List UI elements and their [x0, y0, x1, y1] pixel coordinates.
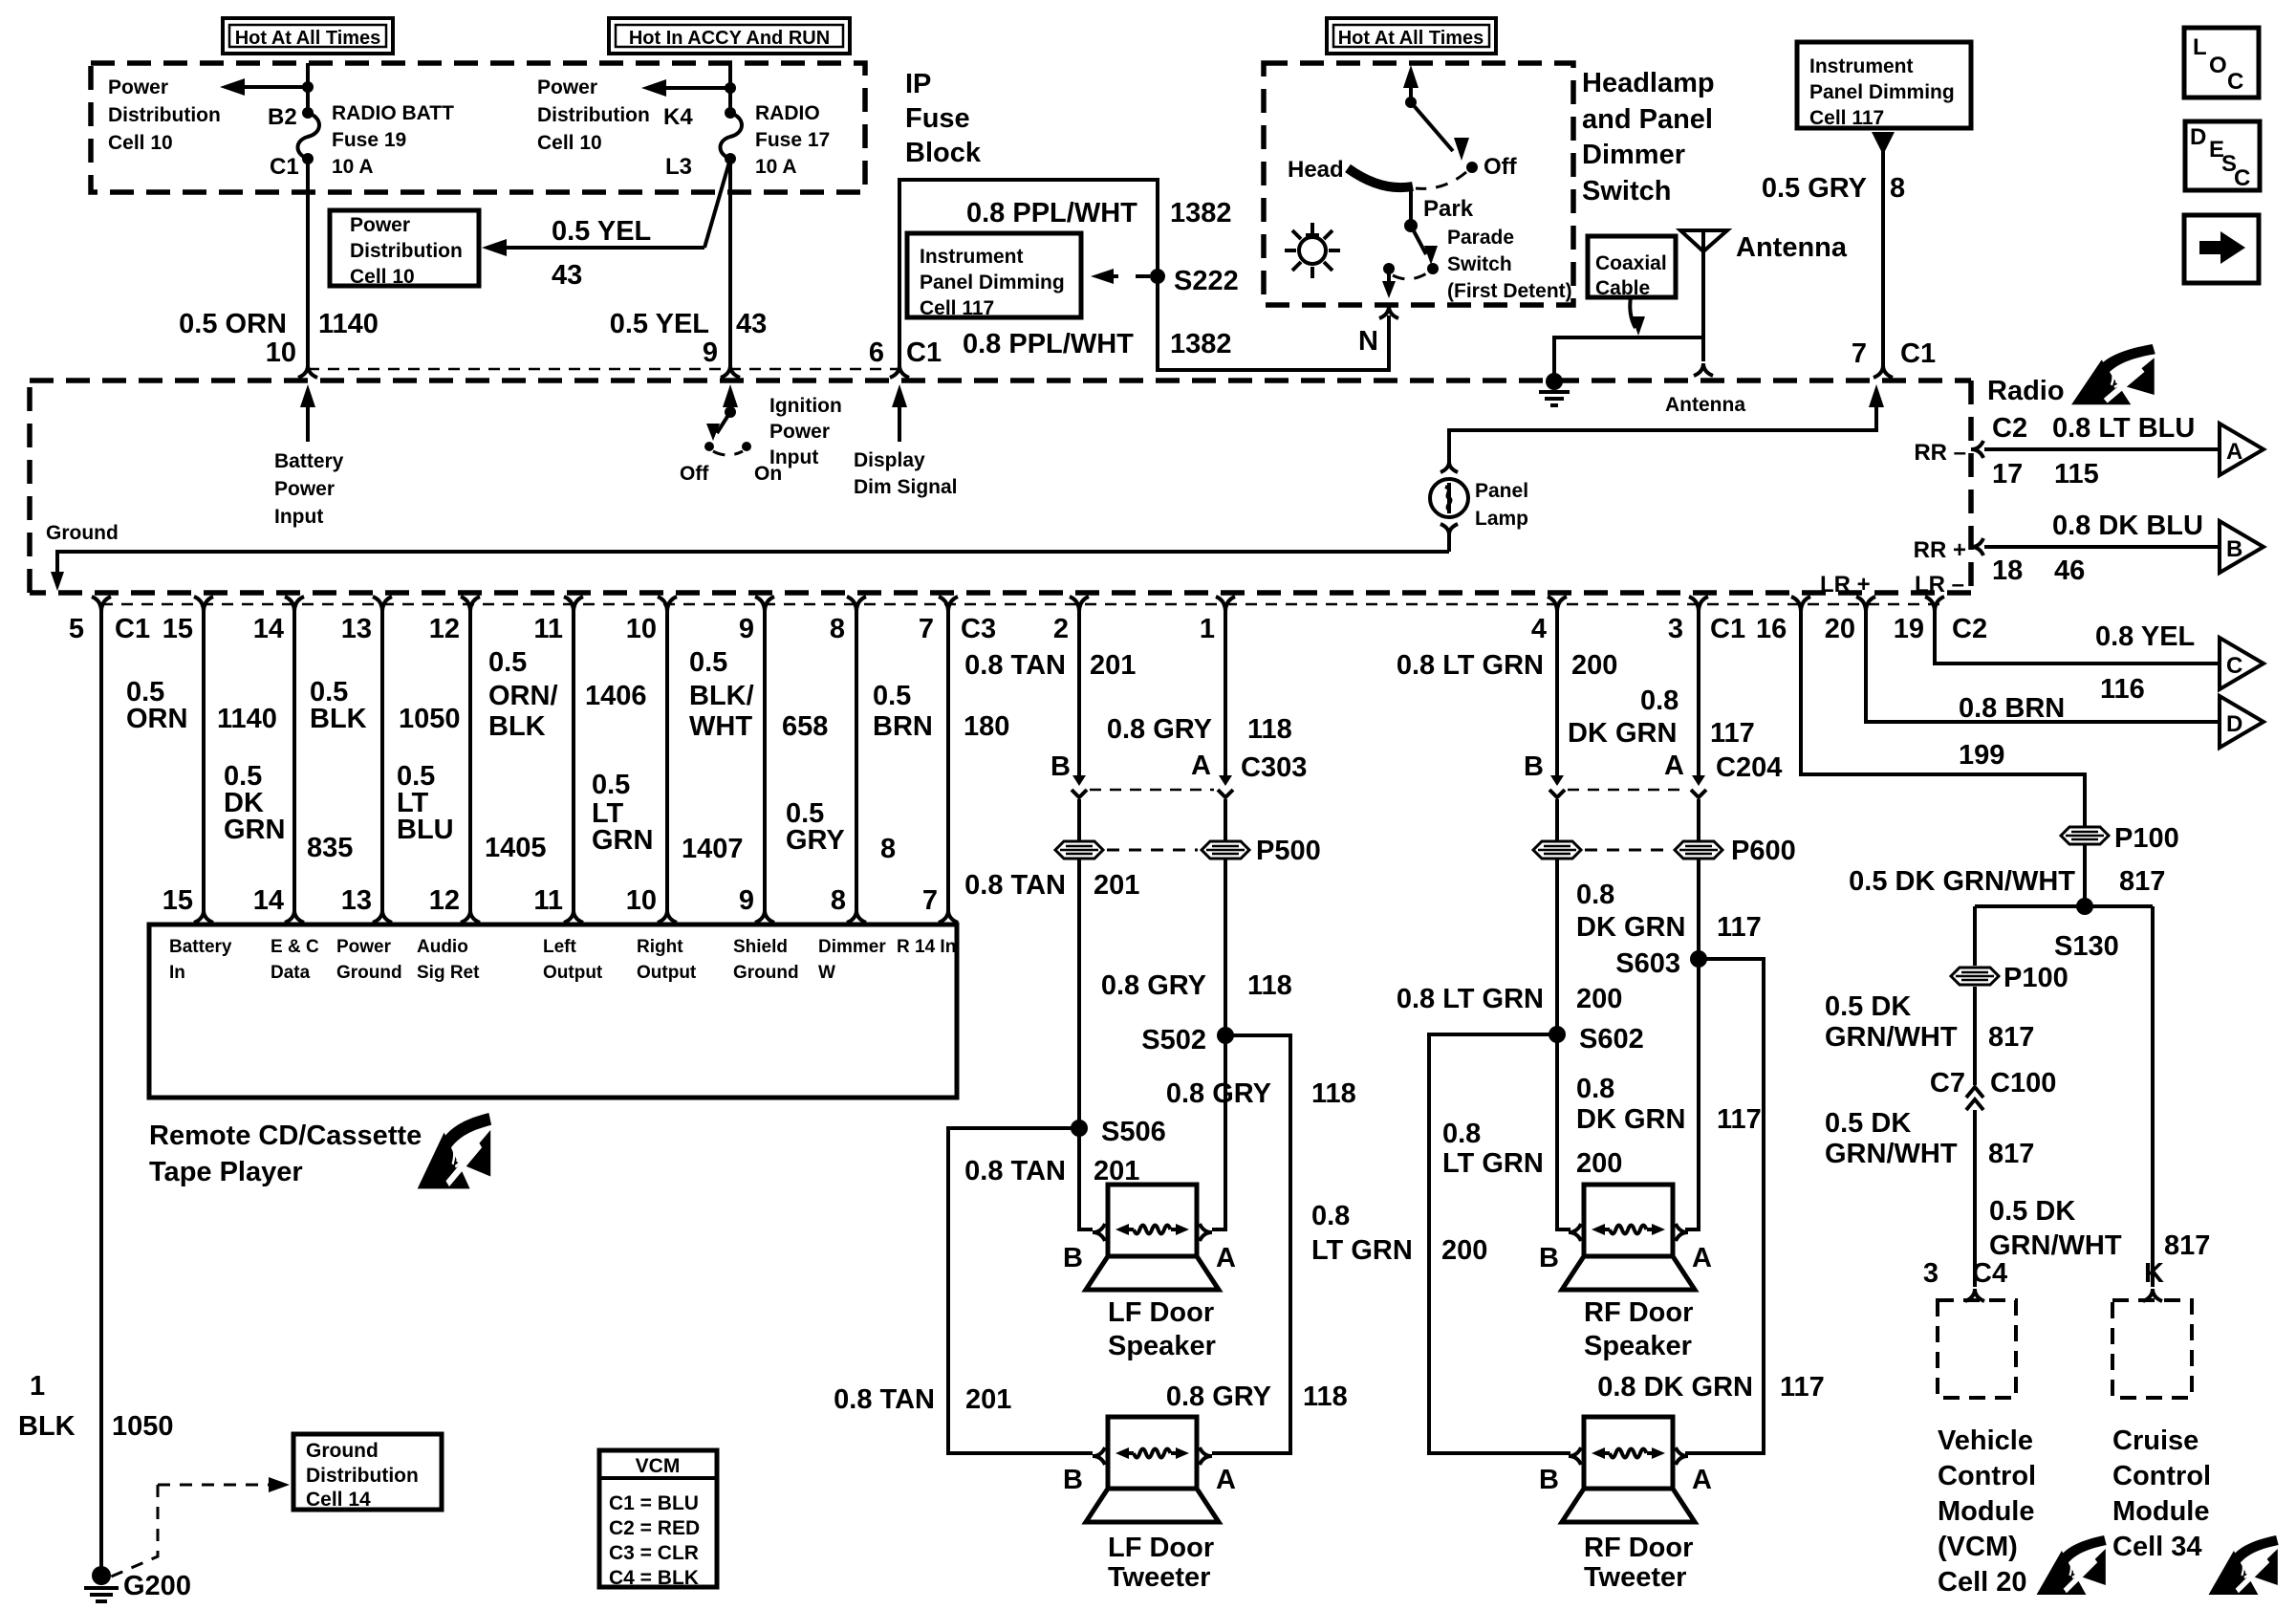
- svg-text:Panel: Panel: [1475, 480, 1528, 502]
- svg-text:DK GRN: DK GRN: [1568, 718, 1677, 749]
- svg-text:LT GRN: LT GRN: [1442, 1148, 1544, 1179]
- svg-text:201: 201: [1090, 650, 1136, 681]
- svg-text:O: O: [2209, 53, 2227, 78]
- svg-text:Coaxial: Coaxial: [1595, 252, 1667, 274]
- svg-text:Distribution: Distribution: [537, 104, 650, 126]
- svg-text:Cell 10: Cell 10: [350, 266, 415, 288]
- svg-text:RR +: RR +: [1914, 537, 1966, 563]
- svg-text:817: 817: [2119, 866, 2165, 897]
- ESD symbol (VCM): [2037, 1535, 2107, 1595]
- label 0.5 DK GRN/WHT 817 (to VCM): [1825, 1108, 2034, 1169]
- svg-text:0.8 TAN: 0.8 TAN: [964, 1156, 1066, 1186]
- svg-text:0.8 TAN: 0.8 TAN: [964, 650, 1066, 681]
- svg-text:Head: Head: [1288, 157, 1344, 183]
- svg-text:0.8 BRN: 0.8 BRN: [1959, 693, 2065, 724]
- svg-text:Tweeter: Tweeter: [1108, 1562, 1210, 1593]
- svg-text:L: L: [2193, 34, 2207, 60]
- svg-text:10: 10: [626, 614, 657, 644]
- svg-text:16: 16: [1756, 614, 1787, 644]
- label box "Hot In ACCY And RUN": [609, 18, 850, 54]
- svg-text:B: B: [1051, 751, 1071, 782]
- connector C7 C100: [1930, 1068, 2056, 1110]
- wire arrow to Power Distribution (left): [220, 78, 308, 96]
- fuse F17 RADIO element: [721, 107, 743, 164]
- label 0.8 GRY 118 (tweeter branch): [1166, 1078, 1356, 1109]
- wire 0.8 LT BLU 115: [1984, 447, 2220, 451]
- svg-text:Lamp: Lamp: [1475, 508, 1528, 530]
- display dim signal arrow: [892, 384, 907, 442]
- svg-text:0.8 GRY: 0.8 GRY: [1101, 970, 1206, 1001]
- svg-text:1050: 1050: [399, 704, 461, 734]
- svg-text:18: 18: [1992, 555, 2023, 586]
- svg-text:14: 14: [253, 885, 284, 916]
- label RADIO Fuse 17 10 A: [755, 102, 830, 178]
- Cruise Control Module dashed box: [2112, 1300, 2192, 1398]
- label 0.5 ORN/BLK (pin11): [488, 647, 558, 742]
- Off contact dot: [1466, 154, 1518, 180]
- svg-text:117: 117: [1717, 1104, 1762, 1135]
- svg-text:Dimmer: Dimmer: [1582, 140, 1685, 170]
- svg-text:0.5 DK: 0.5 DK: [1825, 1108, 1911, 1139]
- label 0.5 BLK/WHT (pin9): [689, 647, 754, 742]
- label Headlamp and Panel Dimmer Switch: [1582, 68, 1715, 207]
- svg-text:19: 19: [1894, 614, 1924, 644]
- label 0.8 LT GRN 200 (below S602): [1442, 1119, 1622, 1179]
- label 0.5 BRN (pin7): [873, 681, 933, 742]
- pin 10 bracket: [266, 337, 317, 378]
- svg-text:199: 199: [1959, 740, 2004, 771]
- svg-text:Off: Off: [1484, 154, 1518, 180]
- svg-text:Module: Module: [2112, 1496, 2210, 1527]
- svg-text:0.8 DK GRN: 0.8 DK GRN: [1597, 1372, 1753, 1403]
- Radio dashed box: [30, 381, 1971, 593]
- label Vehicle Control Module (VCM) Cell 20: [1938, 1425, 2036, 1598]
- svg-text:Control: Control: [2112, 1461, 2211, 1491]
- svg-text:GRN/WHT: GRN/WHT: [1825, 1139, 1958, 1169]
- ignition power input switch: [704, 384, 751, 455]
- svg-text:LF Door: LF Door: [1108, 1533, 1214, 1563]
- svg-text:Off: Off: [680, 463, 709, 485]
- connector C204 row: [1524, 751, 1782, 797]
- connector P100 (upper): [2061, 823, 2179, 854]
- svg-text:Data: Data: [271, 963, 311, 983]
- svg-text:Power: Power: [108, 76, 168, 98]
- svg-text:0.8: 0.8: [1576, 1074, 1614, 1104]
- svg-text:8: 8: [880, 834, 896, 864]
- label 0.8 TAN 201 (S506 branch): [964, 1156, 1139, 1186]
- wire S602 branch to RF tweeter B: [1429, 1034, 1570, 1453]
- radio C1 connector thin dashed line (top): [308, 368, 899, 371]
- svg-text:8: 8: [830, 614, 845, 644]
- antenna shield wire: [1554, 337, 1703, 378]
- label IP Fuse Block: [905, 69, 982, 168]
- wire P100 to S130: [2083, 845, 2087, 906]
- svg-text:10: 10: [626, 885, 657, 916]
- svg-text:835: 835: [307, 833, 353, 863]
- svg-text:14: 14: [253, 614, 284, 644]
- svg-text:C: C: [2234, 165, 2250, 191]
- svg-text:C204: C204: [1716, 752, 1782, 783]
- svg-text:0.5 DK: 0.5 DK: [1989, 1196, 2075, 1227]
- svg-text:B2: B2: [268, 104, 297, 130]
- label Remote CD/Cassette Tape Player: [149, 1120, 422, 1187]
- label Parade Switch (First Detent): [1447, 227, 1572, 302]
- svg-text:Battery: Battery: [169, 937, 232, 957]
- wire 0.5 GRY 8 with solid down triangle: [1872, 132, 1895, 365]
- svg-text:0.5: 0.5: [592, 770, 630, 800]
- svg-text:3: 3: [1668, 614, 1683, 644]
- label LF Door Speaker: [1108, 1297, 1216, 1361]
- antenna mast symbol: [1680, 230, 1727, 361]
- svg-text:BLU: BLU: [397, 815, 454, 845]
- label 0.8 DK GRN 117 (RF tweeter A wire): [1597, 1372, 1825, 1403]
- svg-text:LR +: LR +: [1820, 572, 1871, 598]
- svg-text:GRN/WHT: GRN/WHT: [1825, 1022, 1958, 1053]
- svg-text:P600: P600: [1731, 836, 1796, 866]
- svg-text:Vehicle: Vehicle: [1938, 1425, 2033, 1456]
- svg-text:9: 9: [739, 885, 754, 916]
- output triangle D: [2220, 696, 2264, 748]
- pin 6 bracket: [869, 337, 942, 378]
- svg-text:Left: Left: [543, 937, 577, 957]
- svg-text:C1: C1: [270, 154, 299, 180]
- svg-text:RF Door: RF Door: [1584, 1297, 1693, 1328]
- svg-text:RF Door: RF Door: [1584, 1533, 1693, 1563]
- wire S130 branches: [1975, 906, 2153, 1287]
- svg-text:D: D: [2190, 124, 2206, 150]
- svg-text:Power: Power: [274, 478, 335, 500]
- svg-text:Display: Display: [854, 449, 925, 471]
- svg-text:Antenna: Antenna: [1736, 232, 1848, 263]
- svg-text:Dimmer: Dimmer: [818, 937, 886, 957]
- Remote CD/Cassette Tape Player box: [149, 925, 957, 1098]
- output triangle A: [2220, 424, 2264, 475]
- CD player top pin brackets and numbers: [162, 885, 958, 923]
- dashed wire to ground distribution: [109, 1477, 290, 1577]
- label 0.8 TAN 201 (below P500): [964, 870, 1139, 901]
- svg-text:BRN: BRN: [873, 711, 933, 742]
- svg-text:15: 15: [162, 614, 193, 644]
- wire radio pin10 drop 0.5 ORN: [306, 159, 310, 365]
- svg-text:Hot At All Times: Hot At All Times: [235, 28, 381, 49]
- radio bottom pin brackets: [92, 597, 1944, 612]
- svg-text:IP: IP: [905, 69, 931, 99]
- svg-text:C1: C1: [1710, 614, 1745, 644]
- label 0.5 GRY (pin8): [786, 798, 845, 856]
- label Power Distribution Cell 10 (fuse17): [537, 76, 650, 154]
- svg-text:A: A: [1692, 1465, 1712, 1495]
- svg-text:C100: C100: [1990, 1068, 2056, 1099]
- wire 0.5 YEL 43 branch with arrow: [482, 159, 730, 256]
- panel lamp: [1430, 462, 1468, 552]
- coax arrow to shield wire: [1630, 297, 1645, 336]
- switch arm to Park/Parade: [1411, 226, 1439, 274]
- pin K bracket at cruise: [2143, 1258, 2164, 1301]
- svg-text:13: 13: [341, 885, 372, 916]
- wire S603 branch to RF tweeter A: [1685, 959, 1764, 1453]
- svg-text:P500: P500: [1256, 836, 1321, 866]
- wire fuse17 feed: [728, 63, 732, 113]
- svg-text:Tweeter: Tweeter: [1584, 1562, 1686, 1593]
- svg-text:0.5: 0.5: [689, 647, 727, 678]
- svg-text:0.8 PPL/WHT: 0.8 PPL/WHT: [966, 198, 1137, 228]
- svg-text:WHT: WHT: [689, 711, 752, 742]
- svg-text:VCM: VCM: [636, 1455, 681, 1477]
- svg-text:GRN: GRN: [592, 825, 653, 856]
- svg-text:Cell 117: Cell 117: [1809, 107, 1884, 129]
- rotor stem and pivot dot: [1404, 187, 1418, 232]
- svg-text:0.5 GRY: 0.5 GRY: [1762, 173, 1867, 204]
- svg-text:C3: C3: [961, 614, 996, 644]
- ground G200: [84, 1566, 191, 1601]
- svg-text:Ground: Ground: [336, 963, 402, 983]
- svg-text:LT GRN: LT GRN: [1311, 1235, 1413, 1266]
- dashed arc Off to rotor: [1416, 172, 1466, 188]
- svg-text:Dim Signal: Dim Signal: [854, 476, 958, 498]
- svg-text:Fuse 19: Fuse 19: [332, 129, 406, 151]
- wire C100 to VCM: [1973, 1110, 1977, 1287]
- rotor thick arc from Head: [1348, 168, 1413, 187]
- svg-text:LF Door: LF Door: [1108, 1297, 1214, 1328]
- shield ground at radio case: [1539, 373, 1570, 405]
- svg-text:118: 118: [1303, 1382, 1348, 1412]
- svg-text:115: 115: [2054, 459, 2099, 490]
- svg-text:BLK: BLK: [310, 704, 367, 734]
- Power Distribution Cell 10 solid box: [330, 210, 479, 288]
- antenna pin bracket at radio: [1694, 363, 1713, 376]
- svg-text:0.5 YEL: 0.5 YEL: [610, 309, 709, 339]
- switch feed arrow up to Hot At All Times: [1403, 65, 1419, 108]
- svg-text:1382: 1382: [1170, 198, 1232, 228]
- svg-text:C1: C1: [1900, 338, 1936, 369]
- svg-text:S603: S603: [1615, 948, 1680, 979]
- svg-text:Remote CD/Cassette: Remote CD/Cassette: [149, 1120, 422, 1151]
- svg-text:GRY: GRY: [786, 825, 845, 856]
- svg-text:0.5: 0.5: [488, 647, 527, 678]
- wires radio pins 15-7 down to CD player: [204, 612, 948, 910]
- svg-text:Switch: Switch: [1447, 253, 1512, 275]
- svg-text:A: A: [2226, 439, 2242, 465]
- pin number labels bottom row: [69, 614, 1987, 644]
- LF door tweeter: [1086, 1417, 1219, 1522]
- svg-text:117: 117: [1780, 1372, 1825, 1403]
- svg-text:Cruise: Cruise: [2112, 1425, 2199, 1456]
- Vehicle Control Module dashed box: [1938, 1300, 2016, 1398]
- label 0.5 DK GRN/WHT 817 (to cruise): [1989, 1196, 2210, 1261]
- svg-text:C2: C2: [1952, 614, 1987, 644]
- label 0.5 DK GRN (pin14): [224, 761, 285, 845]
- svg-text:200: 200: [1571, 650, 1617, 681]
- label 0.5 LT BLU (pin12): [397, 761, 454, 845]
- svg-text:116: 116: [2100, 674, 2145, 705]
- svg-text:117: 117: [1710, 718, 1755, 749]
- svg-text:6: 6: [869, 337, 884, 368]
- svg-text:817: 817: [1988, 1139, 2034, 1169]
- svg-text:1: 1: [30, 1371, 45, 1402]
- svg-text:DK GRN: DK GRN: [1576, 912, 1685, 943]
- svg-text:0.8 LT GRN: 0.8 LT GRN: [1397, 650, 1544, 681]
- svg-text:Power: Power: [769, 421, 830, 443]
- svg-text:1050: 1050: [112, 1411, 174, 1442]
- label RF Door Speaker: [1584, 1297, 1693, 1361]
- svg-text:201: 201: [1094, 870, 1139, 901]
- svg-text:17: 17: [1992, 459, 2023, 490]
- pin 9 bracket: [703, 337, 740, 378]
- ESD symbol (cruise): [2209, 1535, 2279, 1595]
- svg-text:118: 118: [1311, 1078, 1356, 1109]
- svg-text:C7: C7: [1930, 1068, 1965, 1099]
- svg-text:In: In: [169, 963, 185, 983]
- svg-text:B: B: [1539, 1465, 1559, 1495]
- svg-text:Control: Control: [1938, 1461, 2036, 1491]
- svg-text:Panel Dimming: Panel Dimming: [1809, 81, 1955, 103]
- dashed arc parade contact: [1393, 272, 1428, 279]
- node junction above fuse 17: [725, 82, 736, 94]
- svg-text:117: 117: [1717, 912, 1762, 943]
- svg-text:0.8: 0.8: [1311, 1201, 1350, 1231]
- svg-text:Fuse 17: Fuse 17: [755, 129, 830, 151]
- svg-text:GRN/WHT: GRN/WHT: [1989, 1230, 2122, 1261]
- label 0.8 DK GRN 117 (below P600): [1576, 880, 1762, 943]
- svg-text:11: 11: [533, 885, 563, 916]
- label 0.8 GRY 118 (below P500): [1101, 970, 1292, 1001]
- svg-text:A: A: [1216, 1465, 1236, 1495]
- svg-text:B: B: [1524, 751, 1544, 782]
- svg-text:Right: Right: [637, 937, 683, 957]
- wire 0.8 DK BLU 46: [1984, 545, 2220, 549]
- svg-text:C2: C2: [1992, 413, 2027, 444]
- ground wire inside radio: [51, 552, 1449, 591]
- wire pin5 down to G200: [99, 612, 103, 1569]
- svg-text:Hot In ACCY And RUN: Hot In ACCY And RUN: [629, 28, 830, 49]
- svg-text:0.5 DK: 0.5 DK: [1825, 991, 1911, 1022]
- splice S602: [1549, 1024, 1644, 1055]
- svg-text:Distribution: Distribution: [108, 104, 221, 126]
- switch arm to Off: [1411, 102, 1469, 161]
- svg-text:0.5: 0.5: [873, 681, 911, 711]
- svg-text:12: 12: [429, 614, 460, 644]
- svg-text:0.5 ORN: 0.5 ORN: [179, 309, 287, 339]
- svg-text:B: B: [1063, 1465, 1083, 1495]
- svg-text:Sig Ret: Sig Ret: [417, 963, 480, 983]
- svg-text:8: 8: [831, 885, 846, 916]
- svg-text:BLK: BLK: [488, 711, 546, 742]
- svg-text:Ground: Ground: [306, 1440, 379, 1462]
- svg-text:9: 9: [739, 614, 754, 644]
- svg-text:200: 200: [1576, 984, 1622, 1014]
- svg-text:817: 817: [1988, 1022, 2034, 1053]
- connector pair P600: [1533, 836, 1796, 866]
- label 0.8 TAN 201 (tweeter B wire): [834, 1384, 1011, 1415]
- svg-text:N: N: [1358, 326, 1378, 357]
- svg-text:C4 = BLK: C4 = BLK: [609, 1567, 699, 1589]
- node junction above fuse 19: [302, 81, 314, 93]
- svg-text:S502: S502: [1141, 1025, 1206, 1055]
- svg-text:Audio: Audio: [417, 937, 468, 957]
- svg-text:817: 817: [2164, 1230, 2210, 1261]
- svg-text:W: W: [818, 963, 835, 983]
- svg-text:658: 658: [782, 711, 828, 742]
- svg-text:20: 20: [1825, 614, 1855, 644]
- svg-text:C1 = BLU: C1 = BLU: [609, 1492, 699, 1514]
- svg-text:12: 12: [429, 885, 460, 916]
- svg-text:Headlamp: Headlamp: [1582, 68, 1715, 98]
- connector P100 (lower): [1951, 963, 2069, 993]
- svg-text:A: A: [1216, 1243, 1236, 1273]
- svg-text:DK GRN: DK GRN: [1576, 1104, 1685, 1135]
- svg-text:P100: P100: [2114, 823, 2179, 854]
- svg-text:Antenna: Antenna: [1665, 394, 1745, 416]
- svg-text:C1: C1: [906, 337, 942, 368]
- svg-text:RADIO: RADIO: [755, 102, 820, 124]
- svg-text:5: 5: [69, 614, 84, 644]
- svg-text:180: 180: [964, 711, 1009, 742]
- RF door tweeter: [1562, 1417, 1695, 1522]
- svg-text:118: 118: [1247, 714, 1292, 745]
- svg-text:C303: C303: [1241, 752, 1307, 783]
- svg-text:0.8 LT BLU: 0.8 LT BLU: [2052, 413, 2195, 444]
- svg-text:8: 8: [1890, 173, 1905, 204]
- label Power Distribution Cell 10 (fuse19): [108, 76, 221, 154]
- svg-text:Speaker: Speaker: [1584, 1331, 1692, 1361]
- svg-text:Tape Player: Tape Player: [149, 1157, 303, 1187]
- svg-text:10: 10: [266, 337, 296, 368]
- Ground Distribution Cell 14 box: [293, 1434, 442, 1511]
- svg-text:11: 11: [533, 614, 563, 644]
- label 0.8 DK GRN (pin3): [1568, 685, 1679, 749]
- svg-text:D: D: [2226, 711, 2242, 737]
- splice S502: [1141, 1025, 1234, 1055]
- svg-text:0.8 PPL/WHT: 0.8 PPL/WHT: [963, 329, 1134, 359]
- svg-text:Cell 10: Cell 10: [108, 132, 173, 154]
- svg-text:C1: C1: [115, 614, 150, 644]
- svg-text:9: 9: [703, 337, 718, 368]
- label box "Hot At All Times" (left): [223, 18, 393, 54]
- output triangle B: [2220, 521, 2264, 573]
- svg-text:Power: Power: [336, 937, 392, 957]
- svg-text:Park: Park: [1423, 196, 1474, 222]
- svg-text:Module: Module: [1938, 1496, 2035, 1527]
- label 0.8 LT GRN 200 (RF tweeter B wire): [1311, 1201, 1487, 1266]
- Coaxial Cable box: [1588, 236, 1676, 299]
- svg-text:L3: L3: [665, 154, 692, 180]
- svg-text:Cell 117: Cell 117: [920, 297, 994, 319]
- label 0.5 DK GRN/WHT 817 (left branch): [1825, 991, 2034, 1053]
- splice S506: [1071, 1117, 1166, 1147]
- svg-text:ORN: ORN: [126, 704, 187, 734]
- label 0.5 BLK (pin13): [310, 677, 367, 734]
- wire P100 to C100: [1973, 987, 1977, 1085]
- label 1 BLK (pin5 wire): [18, 1371, 76, 1442]
- wire pin4 0.8 LT GRN down to S602/speaker B: [1557, 612, 1570, 1229]
- svg-text:2: 2: [1053, 614, 1069, 644]
- svg-text:4: 4: [1531, 614, 1547, 644]
- panel lamp bulb symbol: [1285, 223, 1340, 278]
- svg-text:7: 7: [922, 885, 938, 916]
- svg-text:LR –: LR –: [1915, 572, 1964, 598]
- DESC box: [2185, 121, 2260, 191]
- svg-text:10 A: 10 A: [755, 156, 797, 178]
- svg-text:C3 = CLR: C3 = CLR: [609, 1542, 699, 1564]
- RF door speaker: [1562, 1185, 1695, 1290]
- Instrument Panel Dimming Cell 117 box (right): [1797, 42, 1971, 129]
- svg-text:43: 43: [736, 309, 767, 339]
- IP fuse block dashed box: [91, 63, 865, 192]
- svg-text:A: A: [1664, 751, 1684, 781]
- svg-text:1140: 1140: [318, 309, 379, 339]
- label box "Hot At All Times" (headlamp): [1327, 18, 1496, 54]
- svg-text:(VCM): (VCM): [1938, 1532, 2018, 1562]
